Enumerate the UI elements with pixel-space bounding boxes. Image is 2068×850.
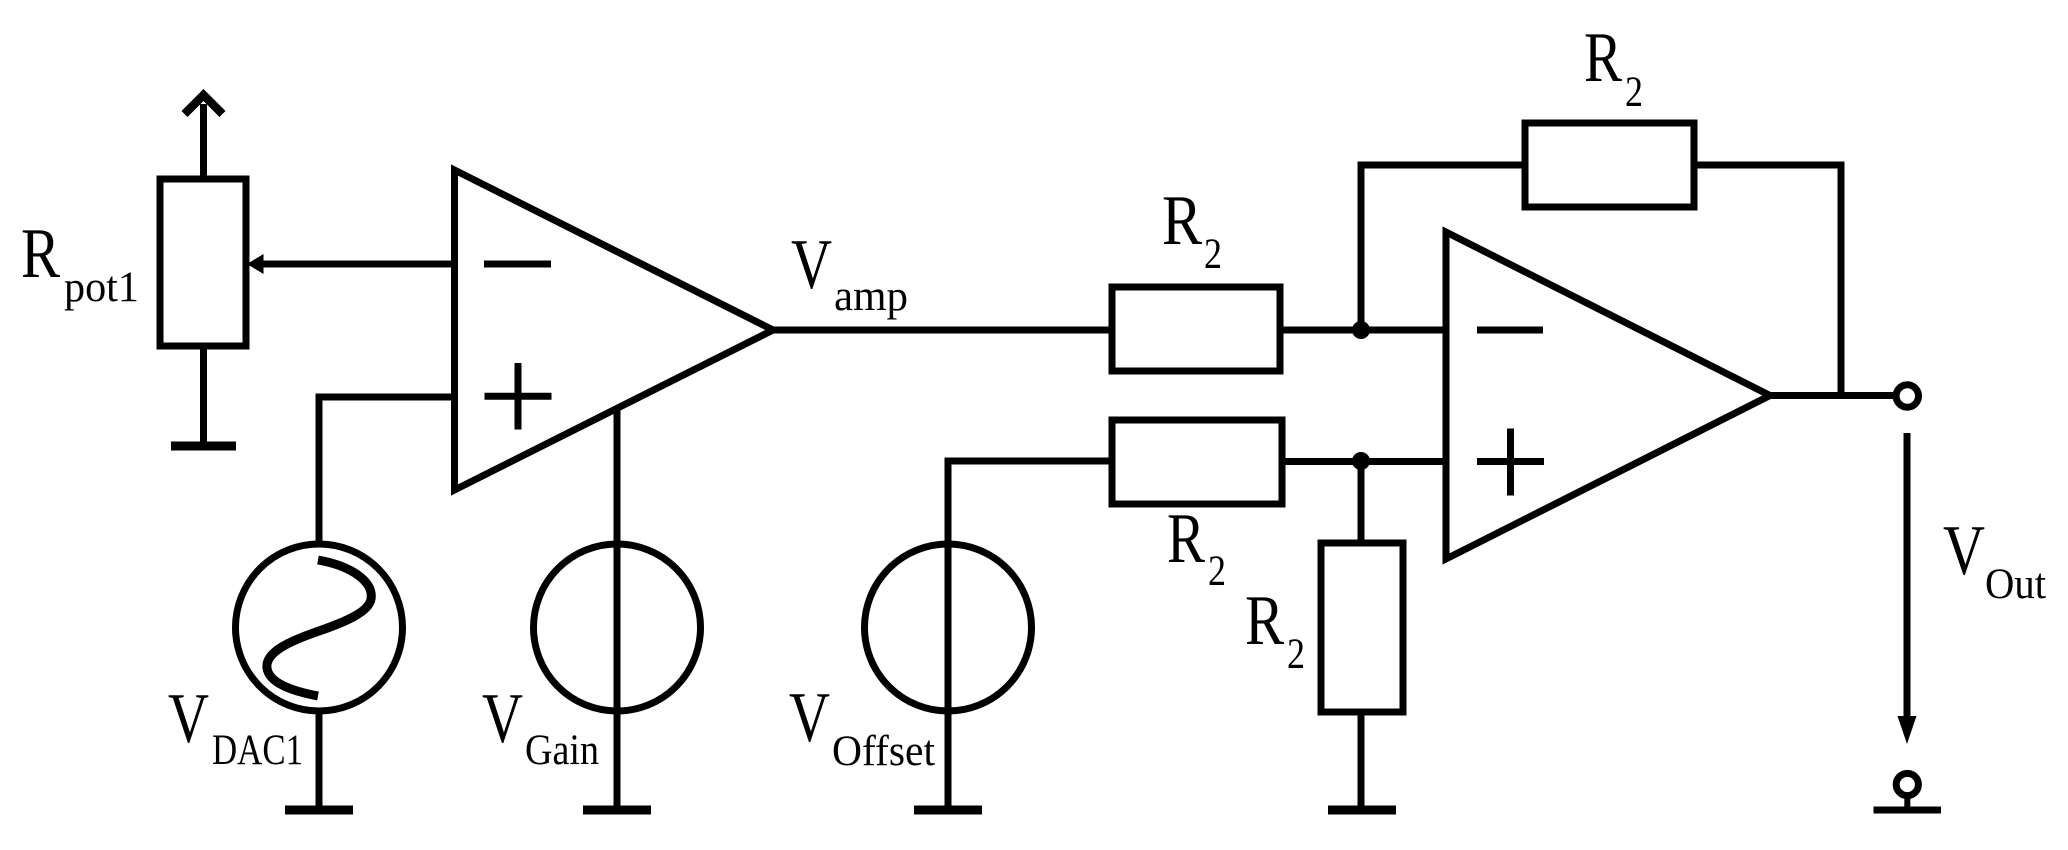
wire shunt R2 bottom xyxy=(1358,712,1365,807)
svg-text:2: 2 xyxy=(1208,548,1226,595)
junction node at non-inverting input xyxy=(1352,452,1370,470)
resistor R2 (input, on V_amp line) xyxy=(1112,287,1280,371)
source V_DAC1 xyxy=(236,544,403,711)
wire from input R2 to U2 inverting input xyxy=(1280,327,1446,334)
op-amp U1 xyxy=(455,170,774,490)
rail terminal bar at pot bottom xyxy=(171,442,236,451)
svg-text:pot1: pot1 xyxy=(64,264,139,311)
svg-text:V: V xyxy=(789,679,830,757)
label R2 (shunt resistor) xyxy=(1245,582,1305,678)
feedback wire from R2 to output xyxy=(1694,165,1841,396)
label V_amp xyxy=(791,226,908,320)
ground (V_Offset) xyxy=(914,806,982,815)
resistor R2 (offset line) xyxy=(1112,420,1282,504)
svg-text:Gain: Gain xyxy=(525,727,599,774)
wire V_DAC1 bottom xyxy=(316,712,323,807)
svg-text:Offset: Offset xyxy=(832,728,935,775)
svg-text:R: R xyxy=(21,215,61,293)
svg-text:V: V xyxy=(1943,512,1985,590)
svg-text:R: R xyxy=(1162,182,1203,260)
svg-text:amp: amp xyxy=(834,273,908,320)
source V_Gain xyxy=(534,544,701,711)
label V_Offset xyxy=(789,679,935,775)
wire gain pin of U1 down through V_Gain to ground xyxy=(614,407,621,807)
svg-text:V: V xyxy=(482,680,523,758)
label V_DAC1 xyxy=(168,680,303,774)
label V_Out xyxy=(1943,512,2046,608)
output wire of U2 xyxy=(1770,392,1897,399)
svg-text:V: V xyxy=(791,226,832,304)
potentiometer R_pot1 xyxy=(160,95,246,446)
bottom output terminal xyxy=(1874,773,1942,810)
wire node V_amp from U1 output to R2 input resistor xyxy=(773,327,1112,334)
wire wiper arrow from op-amp U1 inverting input to pot xyxy=(247,254,454,274)
ground (shunt R2) xyxy=(1328,806,1396,815)
wire from V_DAC1 to U1 non-inverting input xyxy=(319,397,454,546)
label R2 (offset resistor) xyxy=(1167,500,1226,595)
op-amp U2 xyxy=(1446,232,1770,559)
wire from V_Offset up and right to offset R2 xyxy=(948,461,1112,807)
ground (V_DAC1) xyxy=(285,806,353,815)
resistor R2 (feedback) xyxy=(1525,123,1694,207)
wire junction to shunt R2 xyxy=(1358,461,1365,543)
label R2 (input resistor) xyxy=(1162,182,1222,278)
svg-text:R: R xyxy=(1167,500,1206,578)
source V_Offset xyxy=(865,544,1032,711)
label V_Gain xyxy=(482,680,599,774)
svg-text:R: R xyxy=(1584,19,1623,97)
svg-text:2: 2 xyxy=(1287,631,1305,678)
ground (V_Gain) xyxy=(583,806,651,815)
junction node at inverting input xyxy=(1352,321,1370,339)
label R2 (feedback resistor) xyxy=(1584,19,1643,116)
V_Out arrow xyxy=(1898,433,1917,744)
feedback wire from inverting junction up to feedback R2 xyxy=(1361,165,1525,330)
svg-text:Out: Out xyxy=(1985,561,2046,608)
svg-text:2: 2 xyxy=(1625,69,1643,116)
svg-text:R: R xyxy=(1245,582,1285,660)
wire from offset R2 to U2 non-inverting input xyxy=(1282,458,1446,465)
label R_pot1 xyxy=(21,215,139,311)
resistor R2 (shunt, vertical) xyxy=(1321,543,1403,712)
svg-text:DAC1: DAC1 xyxy=(212,727,303,774)
svg-text:2: 2 xyxy=(1204,231,1222,278)
svg-text:V: V xyxy=(168,680,209,758)
output terminal xyxy=(1896,385,1918,407)
